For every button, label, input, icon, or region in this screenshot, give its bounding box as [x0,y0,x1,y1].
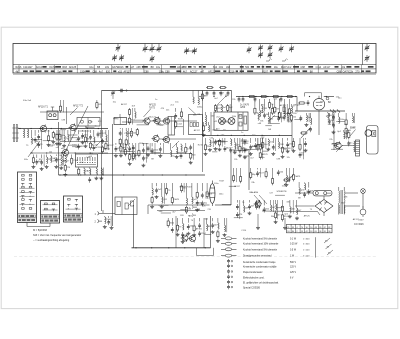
svg-text:AF125: AF125 [69,66,77,69]
svg-text:C114: C114 [241,230,247,232]
wire out riser [147,205,149,214]
resistor R101 [180,108,182,119]
coil L58 [68,130,71,142]
resistor R188 [240,168,242,183]
coil L66 [105,130,115,150]
coil L95 [180,144,183,159]
wire rail to bridge [318,212,321,216]
capacitor C52 [37,130,43,149]
svg-text:R107: R107 [187,187,193,189]
svg-text:R107: R107 [178,119,184,121]
capacitor C137 [277,112,284,122]
svg-text:2n2: 2n2 [287,66,292,69]
coil L201 [271,200,276,212]
wire shield vertical left [58,122,60,175]
resistor R112 [218,138,227,151]
output transformer S3 [354,140,360,156]
wire out top [148,204,210,206]
mains plug [359,206,366,222]
resistor R96 [185,143,191,154]
svg-text:100u: 100u [159,70,165,73]
wire audio drop 4 [283,218,287,229]
wire if link 1 [122,121,143,123]
IF transformer S1 [47,107,58,120]
resistor R55 [55,130,63,145]
wire [345,192,358,194]
coil L145 [266,139,274,151]
capacitor C120 [238,97,241,103]
transistor T10 [228,118,235,125]
svg-text:AC127: AC127 [63,159,70,162]
coil L205 [297,200,302,215]
wave switch S5 [76,154,98,167]
series resistor R133 [286,95,294,97]
svg-text:C88: C88 [182,66,187,69]
svg-text:AF125: AF125 [149,104,156,107]
svg-text:AF117: AF117 [124,70,132,73]
coil L93 [171,143,172,157]
svg-text:R216: R216 [16,66,22,69]
svg-text:C88: C88 [92,70,97,73]
transistor T12 [254,200,261,208]
label mark 2 [282,59,288,62]
capacitor C83 [114,143,122,157]
wire left AM bus [18,128,108,130]
svg-text:820: 820 [106,70,111,73]
svg-text:STERKTE: STERKTE [277,191,288,193]
capacitor C117 [243,140,251,159]
bridge rectifier G1 [315,196,333,216]
capacitor C174 [201,183,208,206]
capacitor C196 [236,200,243,219]
resistor R129 [278,99,280,119]
capacitor C182 [198,218,206,237]
trimmer capacitor C18 [365,45,370,52]
label mark 1 [266,59,272,62]
svg-text:4u7: 4u7 [99,70,104,73]
svg-text:AC127: AC127 [155,118,162,121]
coil L99 [135,108,136,118]
coil L207 [303,182,306,197]
resistor R75 [71,155,79,166]
coil L103 [125,128,129,147]
svg-text:Keramische condensator schijfj: Keramische condensator schijfje [243,266,277,269]
capacitor C153 [328,113,335,125]
wire [65,107,67,124]
wire agc bus [98,153,192,155]
coil L171 [185,183,192,214]
input jack 2 [95,219,103,223]
svg-text:AC127: AC127 [190,70,198,73]
wire input feed [101,91,103,212]
trimmer capacitor C7 [150,56,155,63]
svg-text:4k7: 4k7 [29,66,34,69]
capacitor C86 [128,143,137,165]
svg-text:R107: R107 [292,113,298,115]
IF transformer S6 [77,118,100,127]
capacitor C180 [186,218,194,235]
valve B1 [313,96,331,110]
capacitor C111 [214,140,222,151]
loudspeaker box [365,126,378,155]
capacitor C89 [141,143,149,167]
wire audio box left [133,205,135,248]
svg-text:R216: R216 [118,66,124,69]
legend row 5 [227,259,296,264]
resistor R54 [51,131,60,143]
trimmer capacitor C14 [289,46,294,53]
wire right marks [330,110,340,113]
resistor R124 [254,99,256,115]
svg-text:560: 560 [245,66,250,69]
wire top supply bus [236,96,297,98]
resistor R192 [272,168,274,185]
svg-text:Koolstof weerstand 10% toleran: Koolstof weerstand 10% tolerantie [243,243,279,246]
resistor R109 [204,138,212,156]
coil L77 [84,168,91,176]
resistor R123 [227,104,234,112]
component value labels [26,93,360,232]
svg-text:Draadgewonden weerstand: Draadgewonden weerstand [243,255,272,258]
svg-text:Keramische condensator buisje: Keramische condensator buisje [243,261,276,264]
resistor R127 [268,99,274,109]
trimmer capacitor C19 [365,55,370,62]
resistor R82 [96,100,103,109]
trimmer capacitor C10 [247,47,252,54]
svg-text:Elektrolytische cond.: Elektrolytische cond. [243,276,265,279]
legend row 9 [227,280,279,285]
coil L74 [63,155,71,176]
legend row 3 [221,248,297,252]
wire top bus right of valve [324,96,334,98]
svg-text:2x OA79: 2x OA79 [240,103,250,106]
svg-text:OA79: OA79 [49,66,56,69]
wire top frame [102,90,232,92]
capacitor C126 [263,99,270,118]
coil L142 [290,104,297,122]
wire [49,223,51,227]
wire top frame corner [231,91,233,113]
svg-text:AF125: AF125 [280,104,287,107]
ground near table [295,217,299,220]
svg-text:5 t 300: 5 t 300 [303,243,310,246]
capacitor C59 [77,130,84,150]
svg-text:El. gelijkrichter cel drukknop: El. gelijkrichter cel drukknopschak. [243,282,279,285]
transistor T6 [162,117,170,125]
trimmer capacitor C2 [112,55,117,62]
capacitor C152 [304,138,308,152]
pinout box 3 [64,196,83,222]
wire valve line [295,110,345,112]
coil L186 [223,218,227,237]
svg-text:1 t 100: 1 t 100 [303,248,310,251]
capacitor C90 [146,143,150,157]
transistor T5 [153,116,161,124]
svg-text:Wh: Wh [271,216,274,218]
resistor R178 [176,218,183,236]
coil L125 [260,99,266,117]
coil L197 [244,200,249,212]
resistor R141 [283,104,288,122]
wire bus step [296,97,298,112]
trimmer capacitor C8 [184,48,189,55]
switch link diagonal 2 [28,141,40,157]
trimmer on frame [111,91,115,100]
valve B3 (output) [210,181,215,207]
coil L80 [99,168,103,180]
coil L107 [198,91,199,105]
wire audio box bottom [132,247,211,249]
legend row 6 [227,264,296,269]
wire [345,205,360,207]
svg-text:AF117: AF117 [194,129,201,132]
wire module left drop [202,91,204,173]
resistor R162 [347,130,353,146]
svg-text:c: c [287,59,288,61]
svg-text:n15: n15 [118,70,123,73]
resistor R203 [281,200,289,222]
coil L138 [288,112,290,123]
resistor R76 [78,168,80,176]
resistor R159 [202,122,206,137]
transistor T4 [143,117,151,125]
trimmer capacitor C1 [116,45,121,52]
capacitor C60 [81,130,89,144]
resistor R169 [171,183,180,204]
wire left third bus [60,141,108,143]
pinout box 1 [18,172,37,223]
capacitor C97 [189,143,197,164]
wire if link 2 [150,120,163,122]
jack symbol 3 [189,206,197,210]
coil L165 [150,183,154,208]
wire [27,226,50,228]
capacitor C177 [171,218,174,233]
resistor R88 [138,143,140,157]
svg-text:C114: C114 [316,66,322,69]
coil L167 [160,183,168,208]
wire shield bottom [59,174,206,176]
svg-text:R216: R216 [229,70,235,73]
trimmer capacitor C4 [143,46,148,53]
svg-text:AF125: AF125 [241,147,248,150]
trimmer capacitor C6 [157,46,162,53]
capacitor C208 [307,182,314,195]
svg-text:4k7: 4k7 [183,70,188,73]
trimmer capacitor C13 [279,46,284,53]
svg-text:N-B = Voor inst. frequentie va: N-B = Voor inst. frequentie van toongene… [33,234,81,237]
dial scale tick marks [19,65,361,73]
capacitor C200 [263,200,270,213]
potentiometer P1 [300,128,310,138]
resistor R108 [201,91,207,101]
coil L130 [284,99,285,117]
capacitor C101 [213,91,216,97]
svg-text:R107: R107 [259,172,265,174]
svg-text:6 V: 6 V [290,277,294,279]
svg-text:n47: n47 [130,66,135,69]
wire audio box right [210,216,212,248]
transistor T3 [61,148,69,156]
dial band scale line 1 [13,64,376,66]
svg-text:5 t 100: 5 t 100 [303,255,310,258]
coil L63 [92,130,102,151]
transistor T7 [152,134,160,142]
coil L204 [288,200,296,218]
svg-text:C88: C88 [165,70,170,73]
svg-text:AF125: AF125 [304,215,311,218]
capacitor C166 [155,183,163,199]
capacitor C102 [220,91,223,97]
resistor R143 [257,138,264,151]
svg-text:150k: 150k [80,70,86,73]
trimmer capacitor C15 [258,52,263,59]
capacitor C68 [35,155,42,166]
svg-text:AF116 T1: AF116 T1 [38,106,49,109]
legend row 1 [221,237,297,241]
svg-text:500 V: 500 V [290,262,296,264]
svg-text:-- = verdraaiingsrichting afr: -- = verdraaiingsrichting afregeling [33,239,70,242]
coil L114 [229,138,237,153]
svg-text:AF125: AF125 [215,107,222,110]
svg-text:n47: n47 [200,70,205,73]
resistor R104 [130,128,137,138]
svg-text:C114: C114 [73,160,79,162]
wire psu link lower [295,205,315,207]
wire if link 3 [169,120,197,122]
wire audio drop 1 [175,216,177,248]
coil L73 [59,155,67,170]
capacitor C146 [271,138,275,155]
resistor R53 [47,130,51,147]
svg-text:10u: 10u [89,66,94,69]
svg-text:C114: C114 [177,123,183,125]
wire psu link upper [295,192,313,194]
capacitor C164 [107,216,111,226]
legend row 8 [227,275,294,280]
tone control box [115,197,137,215]
svg-text:Koolstof weerstand 5% tolerant: Koolstof weerstand 5% tolerantie [243,237,278,240]
capacitor C91 [151,143,159,154]
legend wattage column [303,237,316,257]
label pointer lines [96,97,343,206]
wire if row2 link [159,138,196,140]
svg-text:AF117 T2: AF117 T2 [73,105,84,108]
wire sub route [197,248,214,256]
legend row 4 [221,254,295,258]
capacitor C100 [174,108,182,129]
wire left upper link [40,111,104,113]
transistor T8 [162,135,170,143]
coil L160 [209,122,210,132]
resistor R81 [59,100,63,113]
resistor R168 [165,183,171,195]
resistor R140 [271,104,273,115]
svg-text:C114: C114 [48,146,54,148]
svg-text:220V: 220V [359,220,365,222]
capacitor C62 [89,130,99,150]
wire [362,194,364,210]
resistor R150 [292,138,296,152]
resistor above frame 2 [219,86,227,88]
capacitor C158 [332,112,336,134]
label balans [250,191,268,204]
coil L78 [88,168,91,183]
driver transistor T11 [333,141,341,149]
resistor R176 [167,218,175,228]
coil L161 [344,130,347,139]
series resistor R131 [260,95,268,97]
wire jumpers [31,114,345,235]
coil L202 [274,200,282,224]
label AF125 [149,104,156,110]
svg-text:AF117: AF117 [279,116,286,119]
capacitor C64 [97,130,107,138]
svg-text:Kl = 5p6 R93: Kl = 5p6 R93 [33,229,48,232]
input jack 1 [95,210,104,216]
svg-text:T4 T5: T4 T5 [149,107,156,109]
coil L50 [31,130,32,144]
svg-text:Papiercondensator: Papiercondensator [243,271,263,274]
svg-text:n68: n68 [226,66,231,69]
transistor T1 [39,124,47,132]
svg-text:OA79: OA79 [174,198,180,201]
note line 1 [33,229,48,232]
wire [183,119,185,135]
resistor R195 [292,168,301,181]
resistor R85 [124,143,131,156]
svg-text:0.1 W: 0.1 W [290,238,297,240]
svg-text:AF117: AF117 [323,66,331,69]
wire band right divider [362,44,364,65]
transistor T9 [219,118,226,125]
resistor R56 [58,130,62,145]
capacitor C113 [224,138,234,152]
svg-text:10u: 10u [156,66,161,69]
label pointer [70,108,78,116]
wire grid loop [305,93,322,99]
capacitor C65 [101,130,111,154]
fuse holder [313,190,332,196]
capacitor C92 [158,143,163,157]
svg-text:CO 3026: CO 3026 [354,223,364,226]
ferrite rod aerial [12,125,19,142]
coil L154 [339,113,346,123]
capacitor C51 [34,130,37,143]
output transistor T14 [188,235,195,243]
legend row 7 [227,269,296,274]
capacitor C118 [249,138,256,155]
svg-text:AC127: AC127 [149,116,156,119]
svg-text:1 t 300: 1 t 300 [303,237,310,240]
wire audio rail [215,204,231,206]
resistor R175 [206,183,213,199]
resistor R120 [259,138,268,160]
wire [26,223,28,227]
transistor T2 [69,123,77,131]
coil L57 [62,130,69,147]
svg-text:AF117: AF117 [234,185,241,188]
wire audio drop 2 [203,218,205,248]
capacitor C184 [211,218,219,234]
svg-text:Koolstof weerstand 5% tolerant: Koolstof weerstand 5% tolerantie [243,248,278,251]
svg-text:R93: R93 [62,66,67,69]
capacitor C102 [119,128,123,146]
svg-text:125 V: 125 V [290,272,296,274]
coil L122 [221,104,227,112]
svg-text:10u: 10u [274,66,279,69]
wire [187,50,195,52]
